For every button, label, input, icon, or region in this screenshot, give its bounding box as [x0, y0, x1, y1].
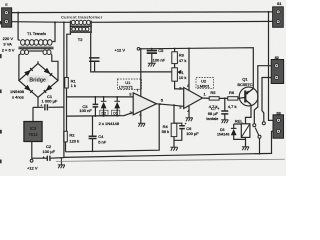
connector S1	[273, 2, 284, 27]
diode D2	[100, 97, 108, 116]
op-amp U1	[118, 49, 164, 124]
wire T1 primary right lead	[53, 22, 56, 41]
capacitor C1	[45, 104, 48, 110]
wire R4 tap	[174, 105, 182, 147]
node C	[63, 21, 65, 23]
ground R4 C6	[170, 147, 177, 151]
resistor R4	[171, 123, 177, 136]
resistor R2	[64, 131, 68, 142]
node A	[17, 12, 19, 14]
ground mystery pad	[89, 58, 100, 61]
wire +12V rail	[140, 48, 253, 88]
node B	[54, 21, 56, 23]
capacitor C7	[224, 98, 226, 119]
scan artifacts left edge	[0, 21, 2, 163]
capacitor C2	[32, 156, 64, 161]
wire ground vertical left	[63, 22, 65, 157]
resistor R1	[65, 78, 69, 89]
wire mains bottom	[12, 20, 277, 23]
capacitor C6	[179, 126, 185, 129]
frame bottom	[56, 159, 285, 161]
resistor R6	[228, 97, 238, 100]
wire R1 to R2	[66, 88, 68, 131]
potentiometer P1	[172, 68, 178, 81]
wire S1 to switch vertical	[269, 12, 279, 121]
current transformer T2	[71, 20, 90, 31]
regulator IC3 7812	[24, 107, 42, 159]
ground relay	[242, 147, 249, 150]
terminal +12V bottom	[30, 159, 33, 162]
wire feedback loop	[66, 104, 160, 152]
relay coil REL	[235, 118, 250, 137]
connector S3	[273, 111, 284, 138]
node R5 R6	[224, 97, 226, 99]
wire T2 right leg	[91, 33, 95, 72]
capacitor C3	[93, 97, 99, 116]
wire T1 primary left lead	[18, 13, 20, 41]
wire bridge output rail	[33, 97, 64, 107]
transistor Q1	[237, 77, 258, 106]
connector E	[2, 2, 12, 27]
wire detector bottom rail	[67, 112, 134, 116]
diode D3	[217, 124, 246, 147]
wire U1 out to U2	[157, 104, 184, 107]
wire bottom rail	[64, 131, 279, 157]
capacitor C4	[89, 116, 97, 152]
relay switch	[253, 66, 277, 154]
diode D1	[112, 97, 121, 116]
ground U2	[186, 118, 193, 121]
node S1 junction	[268, 11, 270, 13]
ground U1	[138, 123, 145, 126]
resistor R3	[172, 52, 178, 64]
op-amp U2	[179, 48, 213, 117]
ground C7	[221, 120, 228, 123]
connector S2	[271, 56, 283, 84]
transformer T1	[19, 40, 59, 81]
ground C5	[148, 63, 156, 66]
wire T2 left leg	[67, 33, 71, 78]
node C4 loop	[92, 151, 94, 153]
bridge rectifier	[19, 61, 58, 97]
wire to P1 wiper	[95, 71, 181, 73]
wire Q1 collector to relay	[246, 105, 252, 124]
ground bottom-left	[58, 158, 65, 169]
wire R2 bottom to loop	[65, 142, 67, 152]
capacitor C5	[147, 49, 157, 64]
resistor R5	[209, 97, 219, 100]
wire U2 out	[203, 97, 245, 100]
wire mains top	[12, 11, 277, 14]
wire detector top rail	[67, 96, 134, 98]
